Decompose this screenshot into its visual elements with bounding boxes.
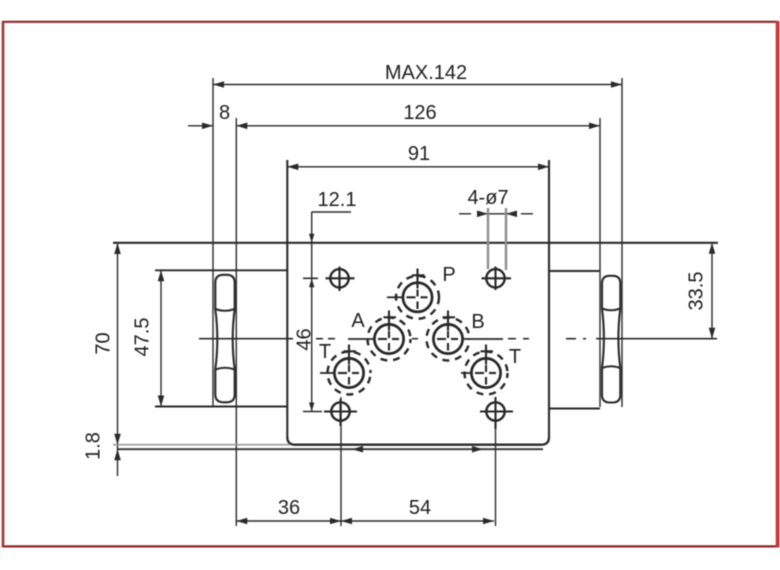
svg-text:46: 46 [294, 328, 316, 350]
svg-text:MAX.142: MAX.142 [385, 62, 467, 84]
svg-text:T: T [509, 346, 521, 368]
svg-text:91: 91 [408, 143, 430, 165]
svg-text:T: T [319, 341, 331, 363]
svg-text:B: B [471, 311, 484, 333]
svg-text:A: A [351, 310, 365, 332]
svg-text:54: 54 [409, 497, 431, 519]
svg-text:12.1: 12.1 [318, 189, 357, 211]
svg-text:36: 36 [278, 497, 300, 519]
svg-text:47.5: 47.5 [132, 318, 154, 357]
svg-text:33.5: 33.5 [686, 272, 708, 311]
svg-text:8: 8 [219, 102, 230, 124]
svg-text:P: P [442, 264, 455, 286]
svg-text:4-ø7: 4-ø7 [467, 187, 508, 209]
svg-text:1.8: 1.8 [83, 432, 105, 460]
svg-text:126: 126 [403, 102, 436, 124]
svg-text:70: 70 [93, 332, 115, 354]
